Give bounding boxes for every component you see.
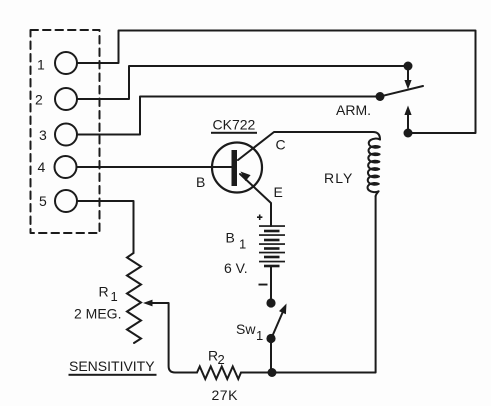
svg-text:B: B [196,174,205,190]
svg-text:27K: 27K [212,387,239,403]
armature blade [380,86,423,97]
R1 rheostat zigzag [127,253,141,343]
armature upper contact junction dot [404,62,413,71]
battery minus sign [259,284,268,286]
relay bottom wire [375,196,377,372]
SENSITIVITY underline [69,374,157,376]
svg-text:1: 1 [239,237,246,252]
switch Sw1 blade [272,313,283,338]
battery plus sign [257,215,262,221]
armature upper arrowhead (down) [404,80,411,90]
transistor base bar [232,150,238,186]
transistor U1 CK722 circle [212,143,262,193]
bottom wire R2 to relay [241,372,375,374]
svg-text:5: 5 [39,193,47,209]
armature lower contact junction dot [404,129,413,138]
bottom junction dot [268,368,277,377]
svg-text:R: R [99,284,109,300]
terminal 2 [55,88,77,110]
svg-text:1: 1 [111,289,118,304]
transistor emitter arrowhead [241,172,251,182]
armature lower arrowhead (up) [404,106,411,116]
wire terminal1 to armature top-right [77,31,476,134]
svg-text:CK722: CK722 [213,117,256,133]
battery B1 wire bottom to switch [270,266,272,299]
relay coil RLY [368,139,380,197]
wire terminal2 to armature upper contact [77,66,404,99]
switch Sw1 top dot [266,298,275,307]
svg-text:3: 3 [39,127,47,143]
terminal 3 [55,124,77,146]
svg-text:Sw: Sw [236,321,256,337]
armature lower arrow shaft [407,115,409,133]
terminal 4 [55,156,77,178]
svg-text:ARM.: ARM. [336,102,371,118]
svg-text:6 V.: 6 V. [224,260,248,276]
switch Sw1 arrowhead [279,304,287,315]
battery short plates [264,230,280,268]
svg-text:B: B [226,230,235,246]
svg-text:1: 1 [256,328,263,343]
svg-text:1: 1 [37,57,45,73]
wire terminal3 to armature pivot [77,97,376,135]
switch Sw1 bottom dot [266,334,275,343]
wire terminal5 to R1 top [77,201,134,253]
resistor R2 zigzag [197,367,241,380]
wire terminal4 to transistor base [77,166,233,168]
transistor collector wire to relay [238,132,380,160]
transistor emitter wire to battery [240,174,271,226]
armature upper arrow shaft [407,66,409,81]
terminal strip dashed box [31,30,100,233]
battery long plates [259,225,285,262]
CK722 underline [211,132,257,134]
R1 wiper wire to bottom wire [152,303,197,373]
svg-text:2: 2 [218,352,225,367]
svg-text:C: C [276,137,286,153]
terminal 1 [55,52,77,74]
svg-text:RLY: RLY [324,170,354,186]
svg-text:E: E [274,184,283,200]
svg-text:2 MEG.: 2 MEG. [74,306,121,322]
armature pivot junction dot [376,92,385,101]
svg-text:2: 2 [35,92,43,108]
R1 wiper arrowhead [143,300,153,307]
svg-text:4: 4 [38,159,46,175]
switch Sw1 lower wire [270,343,272,373]
svg-text:SENSITIVITY: SENSITIVITY [69,358,155,374]
terminal 5 [55,190,77,212]
